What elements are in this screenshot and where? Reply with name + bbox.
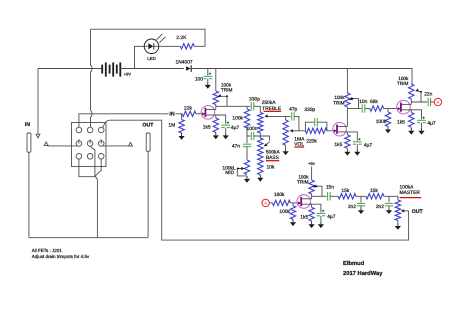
ground (Q1 1k5) <box>213 132 219 139</box>
ground (MID) <box>244 176 250 183</box>
svg-text:TRIM: TRIM <box>221 88 233 93</box>
svg-text:4µ7: 4µ7 <box>364 143 373 149</box>
resistor 100k (tone, bass feed) <box>232 106 249 128</box>
svg-text:TRIM: TRIM <box>397 81 409 86</box>
power flag +9v (Q4) <box>308 161 316 180</box>
svg-text:500kA: 500kA <box>266 150 281 156</box>
wire: TREBLE wiper to volume node <box>267 115 290 117</box>
svg-text:100k: 100k <box>334 95 345 100</box>
ground (Q4 1k5) <box>309 221 315 228</box>
wire: to MASTER pot <box>384 196 398 200</box>
wire: ground rail between jacks <box>29 237 148 239</box>
resistor 100k (Q4 gate leak) <box>279 203 295 219</box>
resistor 1k5 (Q3 source) <box>397 110 414 127</box>
svg-text:4µ7: 4µ7 <box>327 214 336 220</box>
svg-text:+9v: +9v <box>308 161 316 166</box>
svg-text:1k5: 1k5 <box>203 125 211 131</box>
wire: 15n to first 15k <box>330 195 338 197</box>
capacitor 4u7 (Q3 source bypass) <box>417 117 436 128</box>
ground (Q4 gate 100k) <box>290 219 296 226</box>
resistor 100k (Q3 gate leak) <box>376 109 391 127</box>
svg-text:330p: 330p <box>304 107 315 113</box>
wire: MASTER wiper to OUT <box>404 210 409 212</box>
resistor 68k <box>370 99 384 111</box>
capacitor 330p (treble) <box>249 96 260 110</box>
jack J1 IN <box>25 122 31 152</box>
svg-text:15n: 15n <box>326 185 334 191</box>
svg-text:15k: 15k <box>370 188 378 194</box>
svg-text:A: A <box>264 201 267 206</box>
svg-text:TRIM: TRIM <box>297 180 309 185</box>
LED D2 indicator <box>144 34 165 61</box>
svg-text:IN: IN <box>169 111 174 117</box>
node label IN (circuit input) <box>169 111 174 117</box>
resistor 15k (filter 1) <box>338 188 356 199</box>
ground (Q2 4u7) <box>354 149 360 156</box>
capacitor 22n (coupling to A) <box>424 92 432 107</box>
wire: Q3 drain riser <box>410 102 412 104</box>
wire: 22k to Q1 gate <box>196 113 203 115</box>
switch SW1 3PDT bypass <box>72 123 107 167</box>
wire: 180k to Q4 gate <box>290 202 298 204</box>
svg-text:All FETs : J201: All FETs : J201 <box>32 248 63 253</box>
wire: 100k to 100n node <box>247 128 250 136</box>
svg-text:MASTER: MASTER <box>400 190 421 196</box>
resistor 1k5 (Q1 source) <box>203 115 219 132</box>
capacitor 100n (bass) <box>247 126 258 140</box>
potentiometer 100kL MID <box>222 160 249 176</box>
svg-text:1k5: 1k5 <box>334 142 342 148</box>
svg-text:TRIM: TRIM <box>333 100 345 105</box>
node: OUT jack tip arrow <box>129 142 133 146</box>
node: battery negative arrow to IN jack sleeve <box>36 134 40 138</box>
battery BT1 +9V <box>102 62 131 76</box>
svg-text:OUT: OUT <box>142 123 154 129</box>
svg-text:100n: 100n <box>247 126 258 132</box>
svg-text:68k: 68k <box>370 99 378 105</box>
wire: Q1 source to bypass caps <box>213 115 226 124</box>
capacitor 330p (interstage, parallel with 220k) <box>304 107 327 131</box>
wire: 1N4007 to +9V distribution rail <box>191 69 412 85</box>
diode D1 1N4007 <box>176 59 193 71</box>
wire: VOL bottom <box>285 145 287 148</box>
svg-text:2.2K: 2.2K <box>176 35 187 41</box>
svg-text:MID: MID <box>225 170 234 176</box>
wire: 220k to Q2 gate <box>327 130 335 132</box>
wire: Q1 drain node to tone stack <box>216 105 251 107</box>
node A (right) <box>434 98 441 105</box>
ground (2n2 #1) <box>358 206 364 214</box>
potentiometer 500kA BASS <box>258 136 281 161</box>
wire: switch lug 6 to OUT tip arrow <box>103 145 129 147</box>
trimmer 100k TRIM (Q4 drain) <box>297 174 322 196</box>
wire: battery plus to LED branch and 1N4007 <box>120 68 184 70</box>
svg-text:47n: 47n <box>232 144 240 150</box>
svg-text:47p: 47p <box>289 107 297 113</box>
note: FET type <box>32 248 63 253</box>
capacitor 15n (output coupling) <box>326 185 334 201</box>
wire: switch lug 9 to ground <box>95 159 101 176</box>
wire: Q4 source to bypass caps <box>309 204 321 212</box>
capacitor 10n (coupling) <box>359 99 367 113</box>
resistor 220k (interstage) <box>305 128 327 145</box>
resistor 15k (filter 2) <box>366 188 384 199</box>
wire: LED branch riser <box>135 46 145 68</box>
wire: Q4 drain riser <box>311 196 313 199</box>
wire: Q2 drain riser <box>346 109 348 127</box>
svg-text:15k: 15k <box>341 188 349 194</box>
svg-text:1M: 1M <box>168 122 175 128</box>
svg-text:Elbmud: Elbmud <box>343 260 365 267</box>
svg-text:LED: LED <box>147 56 156 61</box>
transistor Q4 J201 <box>297 195 312 209</box>
resistor 180k <box>272 192 290 206</box>
wire: 22n to node A <box>430 101 434 103</box>
potentiometer 1MA VOL <box>283 116 305 147</box>
svg-text:10n: 10n <box>359 99 367 105</box>
ground (MASTER) <box>395 223 401 230</box>
wire: 330p to TREBLE pot <box>254 106 261 112</box>
resistor 10k (below BASS) <box>258 160 275 175</box>
node label OUT (effect output) <box>412 209 424 215</box>
ground (Q4 4u7) <box>318 221 324 228</box>
wire: switch lug 5 to ground rail <box>90 146 97 237</box>
resistor 2.2K (LED limiter) <box>176 35 194 49</box>
wire: IN jack sleeve to ground rail <box>28 152 30 238</box>
wire: 100n to BASS pot top <box>254 136 270 141</box>
svg-text:100k: 100k <box>232 116 243 122</box>
resistor 1k5 (Q4 source) <box>300 204 314 221</box>
svg-text:+9V: +9V <box>124 72 132 77</box>
jack J2 OUT <box>142 123 154 152</box>
svg-text:100k: 100k <box>376 119 387 125</box>
wire: +9V rail from battery minus lead to IN jack drop <box>38 69 102 135</box>
resistor 22k (gate stopper) <box>182 106 196 117</box>
potentiometer 250kA TREBLE <box>258 100 282 138</box>
resistor 1M (input pulldown) <box>168 114 184 133</box>
capacitor 4u7 (Q2 source bypass) <box>353 138 373 149</box>
node A (left) <box>262 199 269 206</box>
svg-text:1N4007: 1N4007 <box>176 59 193 65</box>
svg-text:10k: 10k <box>267 164 275 170</box>
wire: effect output loop to switch lug 3 <box>103 120 409 240</box>
wire: LED return drop to switch (hops over +9V and input wires) <box>91 29 93 127</box>
wire: IN label to 1M/22k junction <box>176 113 182 115</box>
svg-text:2017 HardWay: 2017 HardWay <box>343 270 383 277</box>
svg-text:250kA: 250kA <box>262 100 277 106</box>
svg-text:22k: 22k <box>184 106 192 112</box>
ground (1M) <box>179 133 185 140</box>
wire: switch lug 7 to ground <box>79 159 96 177</box>
capacitor 2n2 (filter 1) <box>348 196 365 210</box>
capacitor 47n (mid) <box>232 136 251 160</box>
transistor Q2 J201 <box>333 122 348 136</box>
svg-text:22n: 22n <box>424 92 432 98</box>
ground (Q3 4u7) <box>418 128 424 135</box>
svg-text:180k: 180k <box>274 192 285 198</box>
svg-text:A: A <box>437 100 440 105</box>
svg-text:4µ7: 4µ7 <box>427 120 436 126</box>
transistor Q1 J201 <box>201 106 216 120</box>
capacitor 4u7 (Q4 source bypass) <box>317 210 336 222</box>
svg-text:330p: 330p <box>249 96 260 102</box>
wire: switch lug 1 to circuit input <box>79 114 169 127</box>
capacitor 100 (power filter electrolytic) <box>195 69 212 83</box>
ground (Q2 1k5) <box>344 149 350 156</box>
svg-text:OUT: OUT <box>412 209 424 215</box>
wire: Q3 drain node to 22n <box>411 101 427 103</box>
wire: 47p to VOL wiper <box>294 116 299 130</box>
resistor 1k5 (Q2 source) <box>334 132 350 148</box>
svg-text:Adjust drain trimpots for 4.5v: Adjust drain trimpots for 4.5v <box>32 254 90 259</box>
wire: 2.2K to top rail back to bypass switch <box>91 29 206 46</box>
wire: 68k to Q3 gate <box>384 108 399 110</box>
svg-text:1k5: 1k5 <box>300 215 308 221</box>
trimmer 100k TRIM (Q3 drain) <box>397 76 422 102</box>
note: bias adjustment <box>32 254 90 259</box>
svg-text:100kA: 100kA <box>400 184 415 190</box>
ground (VOL) <box>283 148 289 155</box>
wire: OUT jack sleeve to ground rail <box>147 151 149 237</box>
wire: node A to 180k <box>269 202 272 204</box>
transistor Q3 J201 <box>397 100 412 114</box>
ground (2n2 #2) <box>386 206 392 214</box>
capacitor 4u7 (Q1 source bypass) <box>221 122 239 133</box>
wire: Q2 source to bypass caps <box>345 132 358 141</box>
svg-text:100: 100 <box>195 76 203 82</box>
potentiometer 100kA MASTER <box>395 184 421 223</box>
title: Elbmud <box>343 260 365 267</box>
ground (BASS/10k) <box>257 175 263 182</box>
title: 2017 HardWay <box>343 270 383 277</box>
svg-text:IN: IN <box>25 122 30 128</box>
wire: Q4 drain node to 15n <box>312 195 327 197</box>
wire: Q1 drain riser <box>215 106 217 109</box>
node: IN jack tip arrow <box>44 142 48 146</box>
wire: 15k junction <box>356 195 366 197</box>
svg-text:1k5: 1k5 <box>397 119 405 125</box>
ground (power filter) <box>205 82 211 89</box>
wire: Q3 source to bypass caps <box>409 110 422 120</box>
svg-text:2n2: 2n2 <box>376 204 384 210</box>
trimmer 100k TRIM (Q1 drain) <box>213 69 232 107</box>
wire: LED to 2.2K <box>159 45 181 47</box>
wire: VOL wiper to 330p/220k <box>293 130 305 132</box>
wire: 10n to 68k <box>365 108 370 110</box>
ground (Q3 1k5) <box>408 128 414 135</box>
trimmer 100k TRIM (Q2 drain) <box>333 69 358 109</box>
svg-text:4µ7: 4µ7 <box>231 125 240 131</box>
capacitor 2n2 (filter 2) <box>376 196 393 210</box>
capacitor 47p (bright) <box>289 107 297 121</box>
svg-text:100k: 100k <box>279 209 290 215</box>
wire: IN tip to switch lug 4 <box>47 145 77 147</box>
ground (Q3 gate 100k) <box>385 127 391 134</box>
ground (Q1 4u7) <box>223 132 229 139</box>
svg-text:220k: 220k <box>306 139 317 145</box>
svg-text:2n2: 2n2 <box>348 204 356 210</box>
wire: Q2 drain node to 10n <box>347 108 361 110</box>
